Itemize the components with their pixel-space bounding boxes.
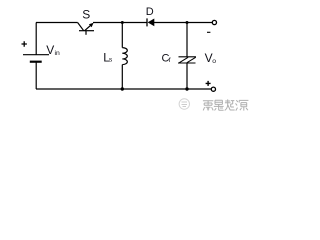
- svg-text:S: S: [82, 8, 90, 22]
- svg-text:o: o: [212, 58, 216, 65]
- svg-text:s: s: [109, 57, 113, 64]
- svg-text:V: V: [46, 43, 54, 57]
- svg-text:f: f: [169, 57, 171, 64]
- svg-text:D: D: [146, 6, 154, 18]
- svg-text:in: in: [55, 50, 61, 57]
